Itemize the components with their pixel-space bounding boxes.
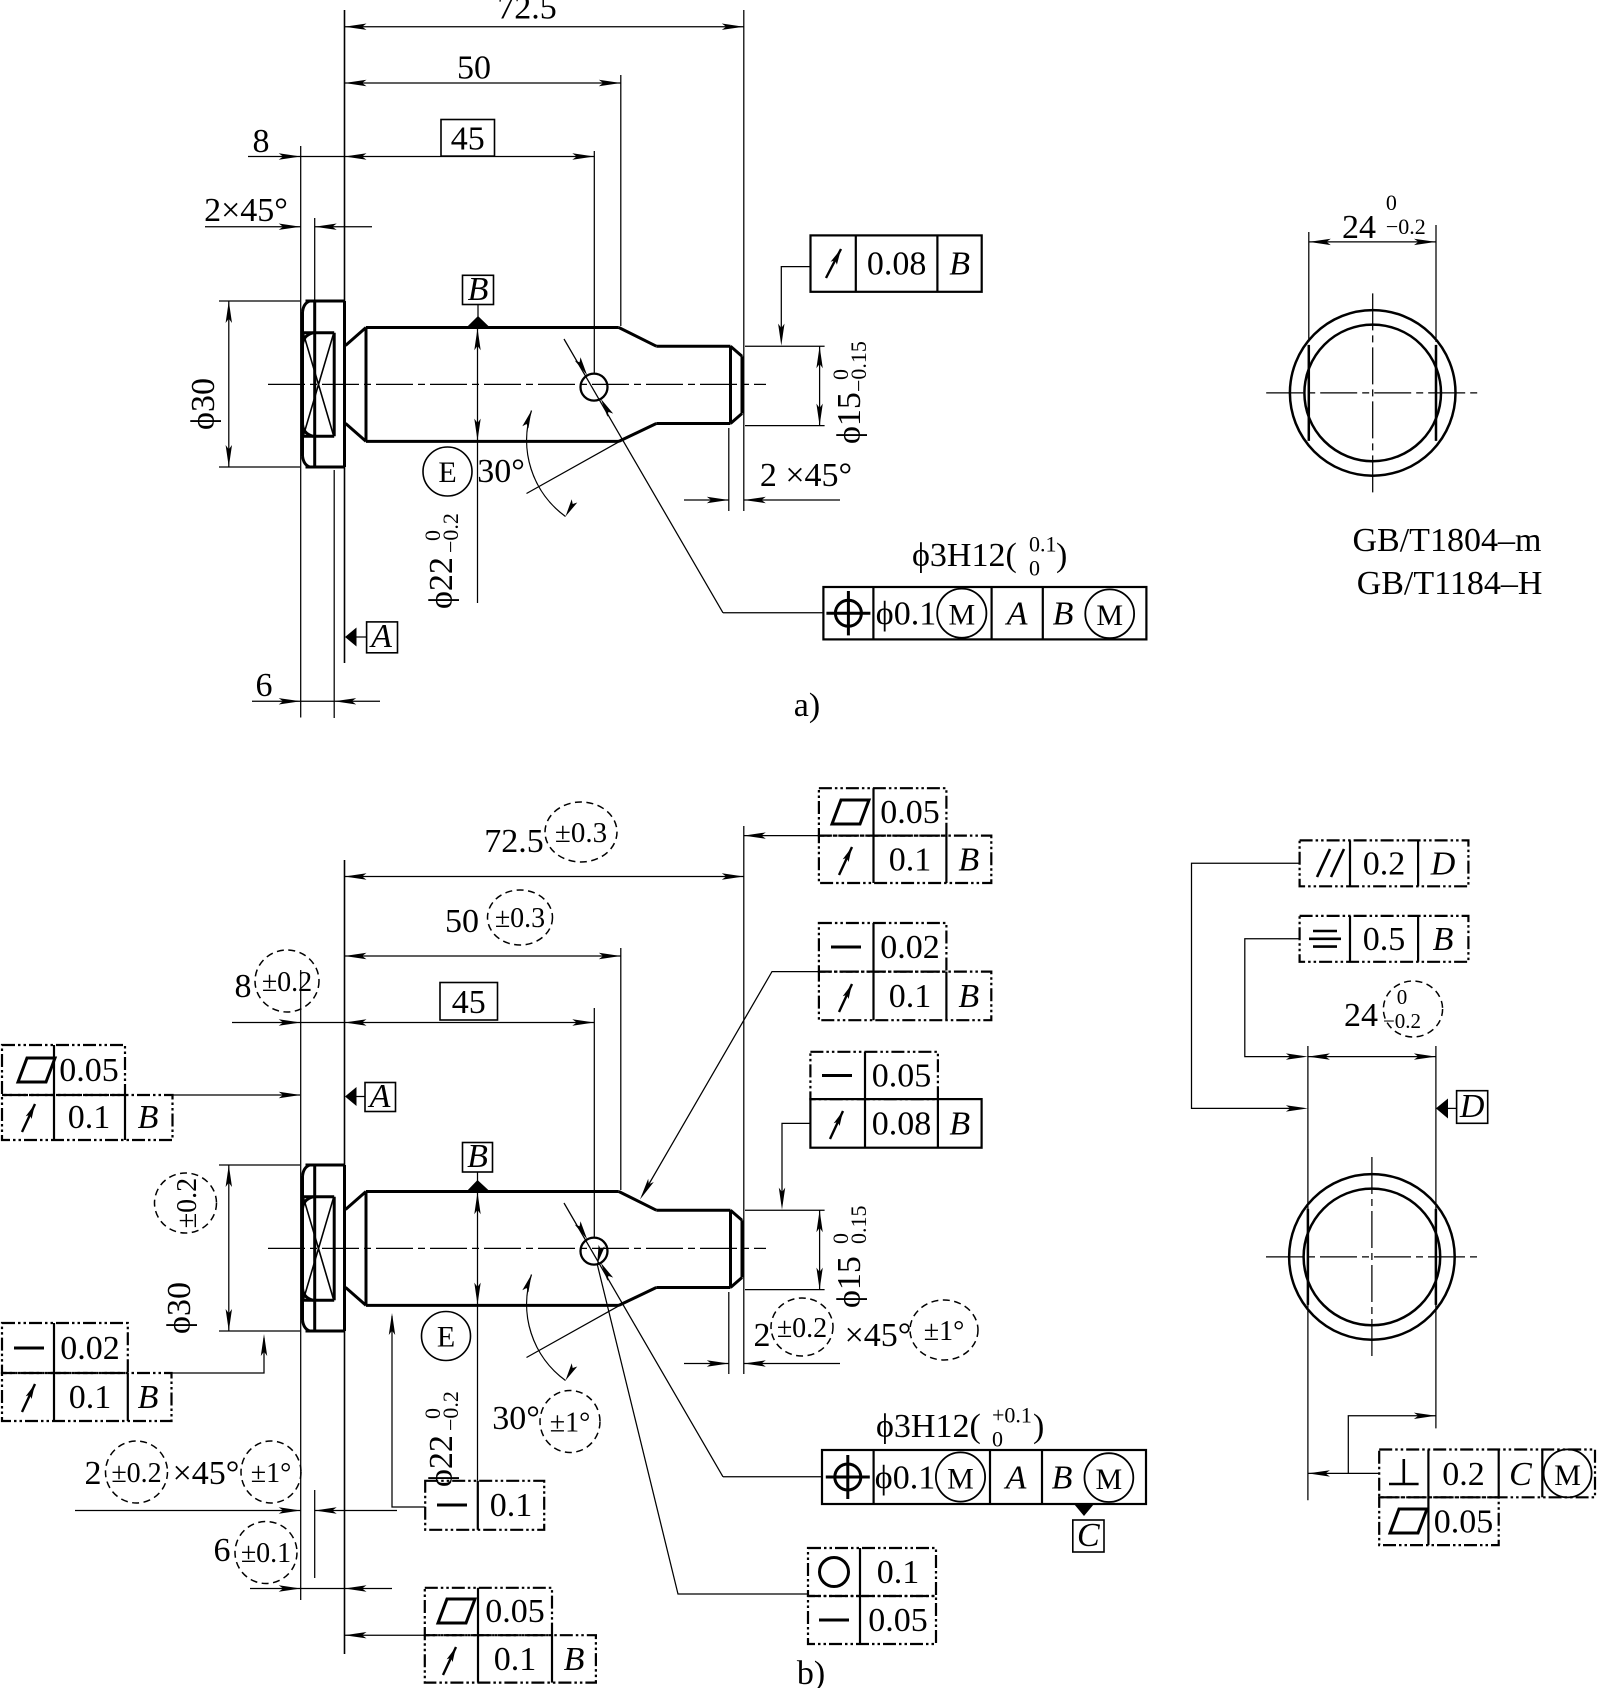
datum A view a [345, 618, 398, 655]
cone transition view a [619, 328, 657, 442]
dimension phi22 with E view b [420, 1192, 481, 1487]
dimension 2 +-0.2 x45 +-1 right view b [684, 1298, 978, 1367]
dimension 6 +-0.1 view b [214, 1522, 393, 1592]
svg-text:±0.3: ±0.3 [495, 903, 545, 934]
svg-text:GB/T1184–H: GB/T1184–H [1357, 565, 1543, 602]
end view top - flats [1309, 345, 1436, 441]
svg-text:0.15: 0.15 [846, 1206, 871, 1245]
svg-text:GB/T1804–m: GB/T1804–m [1353, 522, 1542, 559]
svg-text:M: M [1096, 599, 1123, 632]
note GB/T1184-H [1357, 565, 1543, 602]
svg-text:B: B [1052, 1460, 1073, 1497]
svg-text:0.05: 0.05 [59, 1052, 119, 1089]
dimension 45 boxed view b [345, 983, 595, 1026]
svg-text:−0.2: −0.2 [438, 513, 463, 553]
svg-text:A: A [368, 1078, 391, 1115]
note GB/T1804-m [1353, 522, 1542, 559]
dimension phi15 view b [745, 1206, 871, 1309]
svg-text:): ) [1056, 537, 1067, 574]
svg-text:0.05: 0.05 [880, 794, 940, 831]
svg-text:0: 0 [1386, 190, 1397, 215]
svg-text:±0.2: ±0.2 [111, 1458, 161, 1489]
dimension 50 +-0.3 view b [345, 890, 621, 959]
extension line datum face x=344.5 view a [344, 10, 346, 663]
svg-text:0.05: 0.05 [485, 1593, 545, 1630]
svg-text:E: E [437, 1321, 455, 1354]
dimension 30 degrees cone angle view a [477, 411, 620, 517]
svg-text:6: 6 [214, 1532, 231, 1569]
svg-text:±1°: ±1° [251, 1458, 292, 1489]
dimension 2x45 right chamfer view a [684, 457, 852, 503]
svg-text:45: 45 [452, 984, 486, 1021]
extension line hole center x=594.3 view a [593, 151, 595, 373]
svg-text:0.1: 0.1 [877, 1554, 920, 1591]
symmetry frame 0.5 B view b [1245, 916, 1469, 1060]
dimension 30 degrees +-1 view b [492, 1275, 620, 1453]
leader perpendicularity to flats view b [1308, 1413, 1436, 1477]
svg-text:0.1: 0.1 [69, 1379, 112, 1416]
datum A view b [345, 1078, 396, 1115]
svg-text:8: 8 [235, 968, 252, 1005]
extension line x=728.8 view b [728, 1292, 730, 1374]
end view bottom - inner circle [1304, 1189, 1441, 1326]
svg-text:6: 6 [256, 667, 273, 704]
extension line x=728.8 view a [728, 428, 730, 511]
datum D view b [1436, 1088, 1488, 1125]
svg-text:D: D [1459, 1088, 1485, 1125]
svg-text:ϕ22: ϕ22 [423, 1435, 460, 1487]
svg-text:2×45°: 2×45° [204, 192, 288, 229]
svg-text:0.1: 0.1 [889, 842, 932, 879]
straightness runout stack right middle view b [640, 923, 991, 1200]
svg-text:−0.15: −0.15 [846, 341, 871, 392]
svg-text:30°: 30° [477, 453, 525, 490]
extension line x=334.2 view a [333, 470, 335, 718]
svg-text:0: 0 [1029, 556, 1040, 581]
svg-text:M: M [1096, 1463, 1123, 1496]
svg-text:0.1: 0.1 [494, 1641, 537, 1678]
svg-text:0.02: 0.02 [880, 929, 940, 966]
svg-text:±0.1: ±0.1 [241, 1538, 291, 1569]
extension line right end x=743.8 view b [743, 826, 745, 1374]
svg-text:M: M [948, 599, 975, 632]
svg-text:B: B [468, 271, 489, 308]
svg-text:0.5: 0.5 [1363, 921, 1406, 958]
leader to circularity frame view b [597, 1245, 808, 1594]
svg-text:B: B [564, 1641, 585, 1678]
circularity straightness frame stack bottom view b [808, 1548, 936, 1644]
svg-text:E: E [438, 456, 456, 489]
end view bottom - outer circle [1289, 1174, 1455, 1340]
cross hole phi3 view b [581, 1238, 608, 1265]
svg-text:50: 50 [445, 903, 479, 940]
dimension 2x45 chamfer view a [204, 192, 372, 230]
svg-text:0.1: 0.1 [68, 1099, 111, 1136]
knurled flange head view b [302, 1165, 344, 1331]
datum B view b [463, 1138, 493, 1191]
extension line x=620.8 view b [620, 948, 622, 1190]
dimension 8 view a [248, 123, 345, 160]
svg-text:−0.2: −0.2 [1386, 214, 1426, 239]
svg-text:0.2: 0.2 [1363, 846, 1406, 883]
svg-text:A: A [1005, 596, 1028, 633]
extension line right end x=743.8 view a [743, 10, 745, 511]
cross hole phi3 view a [581, 374, 608, 401]
end view top - outer circle phi30 [1290, 310, 1456, 476]
svg-text:): ) [1033, 1408, 1044, 1445]
dimension 24 0/-0.2 view b [1308, 981, 1443, 1060]
svg-text:±0.2: ±0.2 [777, 1313, 827, 1344]
flatness runout stack bottom left view b [345, 1588, 596, 1683]
svg-text:A: A [1004, 1460, 1027, 1497]
dimension 6 view a [252, 667, 380, 705]
svg-text:2 ×45°: 2 ×45° [760, 457, 852, 494]
leader and diameter line of hole view a [564, 339, 823, 613]
straightness frame 0.1 view b [389, 1313, 544, 1530]
svg-text:24: 24 [1342, 209, 1376, 246]
svg-text:ϕ30: ϕ30 [161, 1282, 198, 1334]
svg-text:a): a) [794, 687, 820, 724]
svg-text:ϕ0.1: ϕ0.1 [876, 596, 936, 633]
svg-text:A: A [369, 618, 392, 655]
end view circle bottom - centerlines [1266, 1157, 1478, 1357]
leader and diameter line of hole view b [564, 1203, 822, 1477]
end view circle top - centerlines [1266, 293, 1478, 494]
svg-text:2: 2 [754, 1317, 771, 1354]
svg-text:D: D [1430, 846, 1456, 883]
flatness runout stack right top view b [744, 788, 992, 883]
extension line x=620.8 view a [620, 75, 622, 326]
svg-text:ϕ15: ϕ15 [831, 1256, 868, 1308]
datum C view b [1073, 1504, 1104, 1554]
svg-text:0.1: 0.1 [1029, 532, 1057, 557]
svg-text:0: 0 [1397, 985, 1408, 1009]
svg-text:±1°: ±1° [924, 1316, 965, 1347]
svg-text:−0.2: −0.2 [1383, 1009, 1421, 1033]
svg-text:B: B [138, 1099, 159, 1136]
svg-text:50: 50 [457, 50, 491, 87]
phi15 neck and end chamfer view a [656, 346, 742, 423]
phi15 neck and end chamfer view b [656, 1210, 742, 1287]
straightness runout frame stack far left view b [2, 1323, 267, 1421]
svg-text:0.02: 0.02 [60, 1330, 120, 1367]
extension line flange left face view b [300, 970, 302, 1600]
svg-text:0.2: 0.2 [1442, 1456, 1485, 1493]
parallelism frame 0.2 D view b [1192, 840, 1469, 1111]
svg-text:×45°: ×45° [173, 1455, 240, 1492]
shaft body phi22 view a [346, 328, 619, 442]
svg-text:8: 8 [253, 123, 270, 160]
dimension phi30 +-0.2 view b [155, 1165, 301, 1334]
svg-text:0.1: 0.1 [889, 978, 932, 1015]
svg-text:0.05: 0.05 [872, 1058, 932, 1095]
dimension 45 boxed view a [345, 120, 595, 160]
svg-text:ϕ15: ϕ15 [831, 392, 868, 444]
svg-text:B: B [138, 1379, 159, 1416]
dimension 72.5 +-0.3 view b [345, 802, 744, 880]
svg-text:0: 0 [992, 1427, 1003, 1452]
end view bottom - flats thick [1308, 1209, 1436, 1305]
position tolerance frame view a [823, 587, 1146, 639]
flatness and runout frame stack left view b [2, 1045, 301, 1140]
svg-text:ϕ22: ϕ22 [423, 557, 460, 609]
svg-text:0.1: 0.1 [490, 1487, 533, 1524]
svg-text:B: B [958, 978, 979, 1015]
extension line flange left face view a [300, 146, 302, 718]
dimension 24 top view [1309, 190, 1436, 342]
shaft body phi22 view b [346, 1192, 619, 1306]
hole size label phi3H12 view b [876, 1403, 1044, 1452]
label b) [797, 1655, 825, 1688]
svg-text:2: 2 [85, 1455, 102, 1492]
svg-text:0.05: 0.05 [1434, 1504, 1494, 1541]
extension line datum face x=344.5 view b [344, 860, 346, 1654]
extension line chamfer x=314.7 view b [314, 1490, 316, 1578]
dimension 50 view a [345, 50, 621, 87]
svg-text:×45°: ×45° [845, 1317, 912, 1354]
svg-text:B: B [958, 842, 979, 879]
end view bottom - flat extension lines [1308, 1046, 1436, 1500]
svg-text:+0.1: +0.1 [992, 1403, 1032, 1428]
position tolerance frame view b [822, 1450, 1146, 1504]
perpendicularity frame 0.2 C M view b [1379, 1449, 1595, 1497]
hole size label phi3H12 view a [912, 532, 1067, 581]
svg-text:0.08: 0.08 [867, 246, 927, 283]
datum B view a [463, 271, 494, 327]
dimension phi22 with E view a [420, 328, 481, 609]
dimension phi15 view a [745, 341, 871, 444]
svg-text:M: M [1554, 1459, 1581, 1492]
cone transition view b [619, 1192, 657, 1306]
extension line chamfer x=314.7 above flange view a [314, 218, 316, 300]
svg-text:±0.3: ±0.3 [555, 817, 607, 849]
svg-text:72.5: 72.5 [497, 0, 557, 27]
svg-text:ϕ3H12(: ϕ3H12( [912, 537, 1017, 574]
svg-text:B: B [949, 1106, 970, 1143]
svg-text:−0.2: −0.2 [438, 1391, 463, 1431]
runout frame 0.08 B view a [778, 235, 982, 345]
svg-text:C: C [1509, 1456, 1532, 1493]
svg-text:30°: 30° [492, 1400, 540, 1437]
svg-text:B: B [467, 1138, 488, 1175]
svg-text:M: M [947, 1463, 974, 1496]
svg-text:B: B [949, 246, 970, 283]
svg-text:B: B [1433, 921, 1454, 958]
svg-text:ϕ3H12(: ϕ3H12( [876, 1408, 981, 1445]
svg-text:±1°: ±1° [550, 1408, 591, 1439]
dimension phi30 view a [185, 301, 300, 467]
svg-text:C: C [1077, 1517, 1100, 1554]
label a) [794, 687, 820, 724]
svg-text:±0.2: ±0.2 [262, 967, 312, 998]
svg-text:ϕ30: ϕ30 [185, 378, 222, 430]
extension line hole center view b [593, 1008, 595, 1237]
flatness frame 0.05 view b bottom right [1379, 1497, 1499, 1545]
svg-text:0.08: 0.08 [872, 1106, 932, 1143]
straightness frame and runout 0.08 stack right view b [779, 1052, 982, 1210]
svg-text:ϕ0.1: ϕ0.1 [875, 1460, 935, 1497]
dimension 8 +-0.2 view b [232, 950, 345, 1026]
svg-text:0.05: 0.05 [868, 1602, 928, 1639]
knurled flange head view a [302, 301, 344, 467]
end view top - inner circle [1304, 325, 1441, 462]
svg-text:b): b) [797, 1655, 825, 1688]
shaft centerline view b [268, 1247, 766, 1249]
svg-text:B: B [1053, 596, 1074, 633]
dimension 72.5 view a [345, 0, 744, 30]
svg-text:±0.2: ±0.2 [172, 1178, 203, 1228]
dimension 2 +-0.2 x45 +-1 left view b [75, 1441, 397, 1514]
svg-text:72.5: 72.5 [484, 823, 544, 860]
shaft centerline view a [268, 383, 766, 385]
svg-text:45: 45 [451, 121, 485, 158]
svg-text:24: 24 [1344, 997, 1378, 1034]
